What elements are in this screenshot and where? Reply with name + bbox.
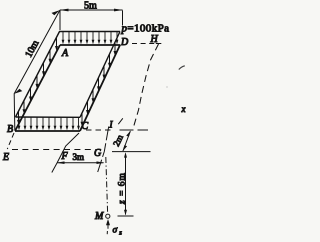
dashed line B-E [7, 133, 14, 149]
svg-text:p=100kPa: p=100kPa [121, 23, 170, 35]
point M circle [106, 214, 110, 218]
line I-G extended below [98, 127, 109, 173]
extension line at A for 5m/10m [59, 11, 61, 31]
svg-text:z: z [118, 230, 122, 237]
dimension 5m line [59, 9, 123, 12]
wire right tail line D'-C' [80, 32, 120, 118]
bottom tick at M level [118, 215, 134, 217]
wire bottom tail line B'-C' [16, 116, 81, 118]
svg-text:F: F [61, 151, 69, 162]
svg-text:z = 6m: z = 6m [118, 172, 128, 205]
line C-F extended [52, 133, 79, 173]
sigma-z arrow below M [106, 219, 110, 234]
wire left tail line A'-B' [16, 32, 60, 118]
svg-text:D: D [120, 37, 129, 48]
stray mark upper right [179, 66, 185, 70]
dimension 2m oblique arrow [123, 130, 131, 151]
load arrows left band [17, 37, 58, 124]
svg-text:5m: 5m [84, 1, 97, 12]
dashed line D-H [132, 43, 158, 45]
label z=6m (rotated) [118, 172, 128, 205]
svg-text:B: B [7, 124, 13, 135]
extension line right for 5m [122, 11, 124, 26]
dimension 10m line [14, 10, 60, 94]
label 10m [23, 38, 41, 59]
svg-text:E: E [2, 152, 9, 163]
small dash near I [118, 118, 123, 124]
svg-text:σ: σ [113, 226, 118, 236]
label 2m (rotated) [111, 133, 125, 148]
dashed line E-F-G [12, 149, 101, 151]
svg-text:A: A [61, 48, 69, 59]
load arrows top band [62, 32, 119, 44]
dash-dot line G-M [106, 157, 108, 213]
load arrows right band [81, 42, 117, 126]
wire top tail line A'-D' [59, 31, 120, 33]
tick line at G level [112, 151, 151, 153]
dashed line C-I extended [86, 129, 111, 131]
wire edge B-C [15, 130, 80, 132]
dashed line H to G (bowed) [134, 44, 159, 127]
tick at H corner [156, 43, 162, 45]
svg-text:3m: 3m [73, 152, 85, 162]
dimension z=6m vertical [124, 152, 127, 215]
wire edge A-B [15, 45, 60, 131]
wire edge A-D [60, 44, 120, 46]
faint speck [166, 86, 167, 87]
svg-text:x: x [181, 104, 186, 114]
svg-text:M: M [94, 211, 104, 222]
wire edge D-C [80, 45, 120, 131]
load arrows bottom band [18, 118, 80, 131]
dimension 3m line [57, 161, 105, 164]
extension line at B for 10m [13, 94, 16, 130]
